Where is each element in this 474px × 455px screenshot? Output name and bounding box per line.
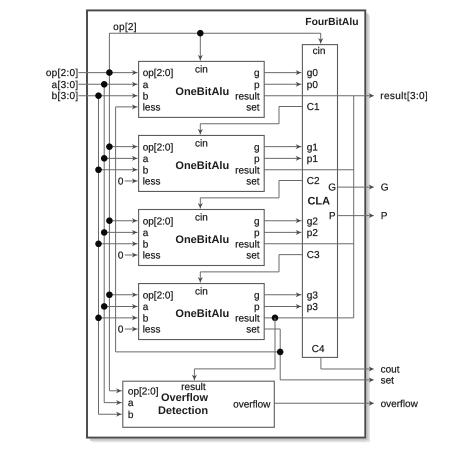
wire p3 — [264, 304, 301, 309]
junction b bus at U3 — [95, 315, 102, 322]
wire g0 — [264, 70, 301, 75]
wire result0 / result[3:0] out — [264, 93, 374, 98]
label FourBitAlu title — [305, 17, 358, 28]
wire op[2] drop to U0 cin — [198, 33, 203, 60]
wire result1 — [264, 169, 354, 171]
junction op bus at U3 — [106, 291, 113, 298]
wire P output — [338, 213, 375, 218]
wire p0 — [264, 82, 301, 87]
svg-text:less: less — [143, 251, 161, 262]
wire g3 — [264, 292, 301, 297]
svg-text:g3: g3 — [307, 290, 319, 301]
block OneBitAlu U1 — [139, 135, 265, 191]
label Overflow a pin — [128, 398, 134, 409]
svg-text:Overflow: Overflow — [161, 392, 209, 404]
label U2 cin pin — [195, 213, 208, 224]
wire result3 branch vertical — [274, 318, 276, 369]
svg-text:result: result — [235, 91, 260, 102]
wire result bus vertical — [353, 96, 355, 318]
svg-text:less: less — [143, 325, 161, 336]
label output G — [381, 183, 389, 194]
wire op[2] drop to CLA cin — [318, 33, 323, 43]
label U2 less pin — [143, 251, 161, 262]
svg-text:Detection: Detection — [158, 405, 208, 417]
label CLA p2 pin — [307, 228, 319, 239]
junction op bus at U0 — [106, 69, 113, 76]
svg-text:p: p — [254, 302, 260, 313]
wire op tap to U3 — [109, 292, 137, 297]
svg-text:a: a — [128, 398, 134, 409]
label U0 set pin — [246, 103, 260, 114]
label 0 constant U1 — [118, 176, 124, 187]
wire g1 — [264, 144, 301, 149]
svg-text:set: set — [246, 325, 260, 336]
label U1 op[2:0] pin — [143, 142, 174, 153]
junction set3 branch — [277, 349, 284, 356]
svg-text:result: result — [235, 239, 260, 250]
label input a[3:0] — [52, 80, 79, 91]
wire C1 horizontal — [200, 123, 279, 125]
label U2 op[2:0] pin — [143, 216, 174, 227]
outer box shadow — [90, 13, 369, 441]
label U3 p pin — [254, 302, 260, 313]
svg-text:less: less — [143, 103, 161, 114]
wire C3 drop to U3 cin — [198, 272, 203, 283]
junction a bus at U1 — [101, 155, 108, 162]
svg-text:g0: g0 — [307, 68, 319, 79]
wire constant 0 to U3 less — [125, 327, 138, 332]
wire constant 0 to U2 less — [125, 252, 138, 257]
wire b tap to U1 — [99, 167, 138, 172]
svg-text:set: set — [246, 251, 260, 262]
label U0 cin pin — [195, 64, 208, 75]
label output set — [381, 376, 395, 387]
wire result2 — [264, 243, 354, 245]
svg-text:G: G — [381, 183, 389, 194]
svg-text:cout: cout — [381, 365, 400, 376]
svg-text:op[2:0]: op[2:0] — [143, 68, 174, 79]
svg-text:less: less — [143, 177, 161, 188]
label CLA P pin — [329, 211, 336, 222]
block FourBitAlu outer box — [87, 10, 365, 437]
label U2 a pin — [143, 228, 149, 239]
wire op[2:0] input stub — [79, 70, 138, 75]
wire C2 vertical — [278, 181, 280, 198]
svg-text:cin: cin — [195, 138, 208, 149]
label U0 g pin — [254, 68, 260, 79]
svg-text:0: 0 — [118, 251, 124, 262]
label U3 op[2:0] pin — [143, 290, 174, 301]
label CLA p3 pin — [307, 302, 319, 313]
svg-text:a: a — [143, 80, 149, 91]
svg-text:a: a — [143, 154, 149, 165]
svg-text:p: p — [254, 154, 260, 165]
svg-text:op[2]: op[2] — [113, 22, 137, 33]
label U2 p pin — [254, 228, 260, 239]
wire overflow output — [274, 401, 374, 406]
svg-text:p3: p3 — [307, 302, 319, 313]
junction a bus at U3 — [101, 303, 108, 310]
svg-text:b: b — [143, 91, 149, 102]
label U1 p pin — [254, 154, 260, 165]
label Overflow overflow pin — [233, 400, 271, 411]
label U3 cin pin — [195, 287, 208, 298]
label input b[3:0] — [52, 91, 79, 102]
label CLA g1 pin — [307, 142, 319, 153]
label U1 result pin — [235, 165, 260, 176]
svg-text:cin: cin — [195, 213, 208, 224]
label CLA title — [307, 196, 330, 208]
label CLA g3 pin — [307, 290, 319, 301]
label U2 result pin — [235, 239, 260, 250]
svg-text:0: 0 — [118, 176, 124, 187]
wire result feed into Overflow Detection — [192, 369, 197, 380]
wire set feedback horizontal — [116, 351, 281, 353]
wire G output — [338, 185, 375, 190]
label U0 p pin — [254, 80, 260, 91]
label U2 g pin — [254, 216, 260, 227]
wire less input U0 — [116, 104, 138, 109]
label Overflow op[2:0] pin — [128, 386, 159, 397]
label op[2] — [113, 22, 137, 33]
label 0 constant U2 — [118, 251, 124, 262]
label output P — [381, 211, 388, 222]
svg-text:g1: g1 — [307, 142, 319, 153]
wire op tap to U2 — [109, 218, 137, 223]
junction result3 branch — [272, 315, 279, 322]
label U1 less pin — [143, 177, 161, 188]
svg-text:b: b — [128, 410, 134, 421]
label U1 cin pin — [195, 138, 208, 149]
label U2 b pin — [143, 239, 149, 250]
wire set3 stub — [264, 328, 280, 330]
svg-text:C3: C3 — [307, 250, 320, 261]
svg-text:set: set — [381, 376, 395, 387]
label U2 set pin — [246, 251, 260, 262]
svg-text:OneBitAlu: OneBitAlu — [175, 160, 229, 172]
label U1 a pin — [143, 154, 149, 165]
wire set3 vertical — [279, 329, 281, 380]
svg-text:op[2:0]: op[2:0] — [143, 290, 174, 301]
wire op[2] horizontal — [109, 32, 320, 34]
label U0 op[2:0] pin — [143, 68, 174, 79]
svg-text:cin: cin — [313, 46, 326, 57]
svg-text:g: g — [254, 68, 260, 79]
label CLA g0 pin — [307, 68, 319, 79]
wire op feed to Overflow Detection — [109, 388, 121, 393]
label U2 OneBitAlu title — [175, 234, 229, 246]
label CLA p1 pin — [307, 154, 319, 165]
svg-text:P: P — [329, 211, 336, 222]
wire constant 0 to U1 less — [125, 178, 138, 183]
label U3 OneBitAlu title — [175, 308, 229, 320]
label CLA g2 pin — [307, 216, 319, 227]
svg-text:op[2:0]: op[2:0] — [143, 216, 174, 227]
wire op bus vertical — [108, 73, 110, 391]
junction op[2] branch — [197, 30, 204, 37]
svg-text:OneBitAlu: OneBitAlu — [175, 308, 229, 320]
wire C1 stub from CLA — [279, 106, 302, 108]
junction b bus at U0 — [95, 92, 102, 99]
wire a tap to U1 — [104, 156, 137, 161]
label output cout — [381, 365, 400, 376]
label CLA G pin — [328, 183, 336, 194]
label U3 g pin — [254, 290, 260, 301]
svg-text:g: g — [254, 216, 260, 227]
label CLA C4 pin — [312, 344, 325, 355]
wire C3 horizontal — [200, 271, 279, 273]
label input op[2:0] — [46, 68, 79, 79]
svg-text:b: b — [143, 239, 149, 250]
svg-text:C4: C4 — [312, 344, 325, 355]
label output overflow — [381, 399, 419, 410]
label U1 set pin — [246, 177, 260, 188]
svg-text:op[2:0]: op[2:0] — [128, 386, 159, 397]
wire set feedback vertical — [115, 107, 117, 352]
label U0 a pin — [143, 80, 149, 91]
block OneBitAlu U2 — [139, 210, 265, 266]
label Overflow b pin — [128, 410, 134, 421]
junction op bus at U2 — [106, 217, 113, 224]
label U1 OneBitAlu title — [175, 160, 229, 172]
label U1 b pin — [143, 165, 149, 176]
svg-text:G: G — [328, 183, 336, 194]
junction a bus at U0 — [101, 81, 108, 88]
svg-text:overflow: overflow — [381, 399, 419, 410]
label U3 set pin — [246, 325, 260, 336]
wire set output — [280, 377, 374, 382]
svg-text:g: g — [254, 142, 260, 153]
label Overflow result pin — [181, 382, 206, 393]
label U0 b pin — [143, 91, 149, 102]
block Overflow Detection — [123, 381, 274, 427]
svg-text:CLA: CLA — [307, 196, 330, 208]
svg-text:a: a — [143, 228, 149, 239]
wire b bus vertical — [98, 96, 100, 415]
wire result feed horizontal — [194, 368, 275, 370]
wire C4 to cout — [321, 357, 374, 371]
svg-text:C1: C1 — [307, 102, 320, 113]
wire b tap to U2 — [99, 241, 138, 246]
svg-text:b: b — [143, 165, 149, 176]
svg-text:g2: g2 — [307, 216, 319, 227]
svg-text:result[3:0]: result[3:0] — [380, 91, 428, 102]
wire a[3:0] input stub — [79, 82, 138, 87]
svg-text:a[3:0]: a[3:0] — [52, 80, 79, 91]
wire op tap to U1 — [109, 144, 137, 149]
wire a feed to Overflow Detection — [104, 400, 122, 405]
svg-text:cin: cin — [195, 287, 208, 298]
wire p1 — [264, 156, 301, 161]
label U3 less pin — [143, 325, 161, 336]
label U0 result pin — [235, 91, 260, 102]
label U3 a pin — [143, 302, 149, 313]
wire C2 horizontal — [200, 197, 279, 199]
svg-text:op[2:0]: op[2:0] — [143, 142, 174, 153]
svg-text:FourBitAlu: FourBitAlu — [305, 17, 358, 28]
svg-text:0: 0 — [118, 325, 124, 336]
wire C1 vertical — [278, 107, 280, 124]
svg-text:p1: p1 — [307, 154, 319, 165]
svg-text:OneBitAlu: OneBitAlu — [175, 234, 229, 246]
wire p2 — [264, 230, 301, 235]
wire b tap to U3 — [99, 315, 138, 320]
wire g2 — [264, 218, 301, 223]
wire op[2] tap from op bus — [108, 33, 110, 72]
svg-text:p0: p0 — [307, 80, 319, 91]
svg-text:b[3:0]: b[3:0] — [52, 91, 79, 102]
svg-text:OneBitAlu: OneBitAlu — [175, 86, 229, 98]
label Overflow title line2 — [158, 405, 208, 417]
label CLA cin pin — [313, 46, 326, 57]
junction b bus at U2 — [95, 241, 102, 248]
svg-text:P: P — [381, 211, 388, 222]
svg-text:p: p — [254, 228, 260, 239]
wire a bus vertical — [103, 84, 105, 402]
svg-text:b: b — [143, 313, 149, 324]
junction b bus at U1 — [95, 166, 102, 173]
svg-text:cin: cin — [195, 64, 208, 75]
svg-text:result: result — [235, 313, 260, 324]
block OneBitAlu U3 — [139, 284, 265, 340]
svg-text:p2: p2 — [307, 228, 319, 239]
svg-text:set: set — [246, 177, 260, 188]
svg-text:g: g — [254, 290, 260, 301]
wire b[3:0] input stub — [79, 93, 138, 98]
svg-text:set: set — [246, 103, 260, 114]
svg-text:op[2:0]: op[2:0] — [46, 68, 79, 79]
svg-text:a: a — [143, 302, 149, 313]
wire result3 — [264, 317, 354, 319]
label CLA p0 pin — [307, 80, 319, 91]
label output result[3:0] — [380, 91, 428, 102]
wire C2 drop to U2 cin — [198, 198, 203, 209]
label CLA C1 pin — [307, 102, 320, 113]
label U0 less pin — [143, 103, 161, 114]
svg-text:result: result — [235, 165, 260, 176]
wire C2 stub from CLA — [279, 180, 302, 182]
label Overflow title line1 — [161, 392, 209, 404]
wire C1 drop to U1 cin — [198, 124, 203, 135]
junction op bus at U1 — [106, 143, 113, 150]
svg-text:p: p — [254, 80, 260, 91]
label 0 constant U3 — [118, 325, 124, 336]
label U3 b pin — [143, 313, 149, 324]
svg-text:overflow: overflow — [233, 400, 271, 411]
junction a bus at U2 — [101, 229, 108, 236]
label CLA C3 pin — [307, 250, 320, 261]
wire a tap to U3 — [104, 304, 137, 309]
wire C3 stub from CLA — [279, 254, 302, 256]
label U1 g pin — [254, 142, 260, 153]
wire b feed to Overflow Detection — [99, 412, 122, 417]
wire a tap to U2 — [104, 230, 137, 235]
block OneBitAlu U0 — [139, 61, 265, 117]
label U3 result pin — [235, 313, 260, 324]
wire C3 vertical — [278, 255, 280, 272]
label U0 OneBitAlu title — [175, 86, 229, 98]
block CLA — [302, 45, 337, 358]
label CLA C2 pin — [307, 176, 320, 187]
svg-text:C2: C2 — [307, 176, 320, 187]
